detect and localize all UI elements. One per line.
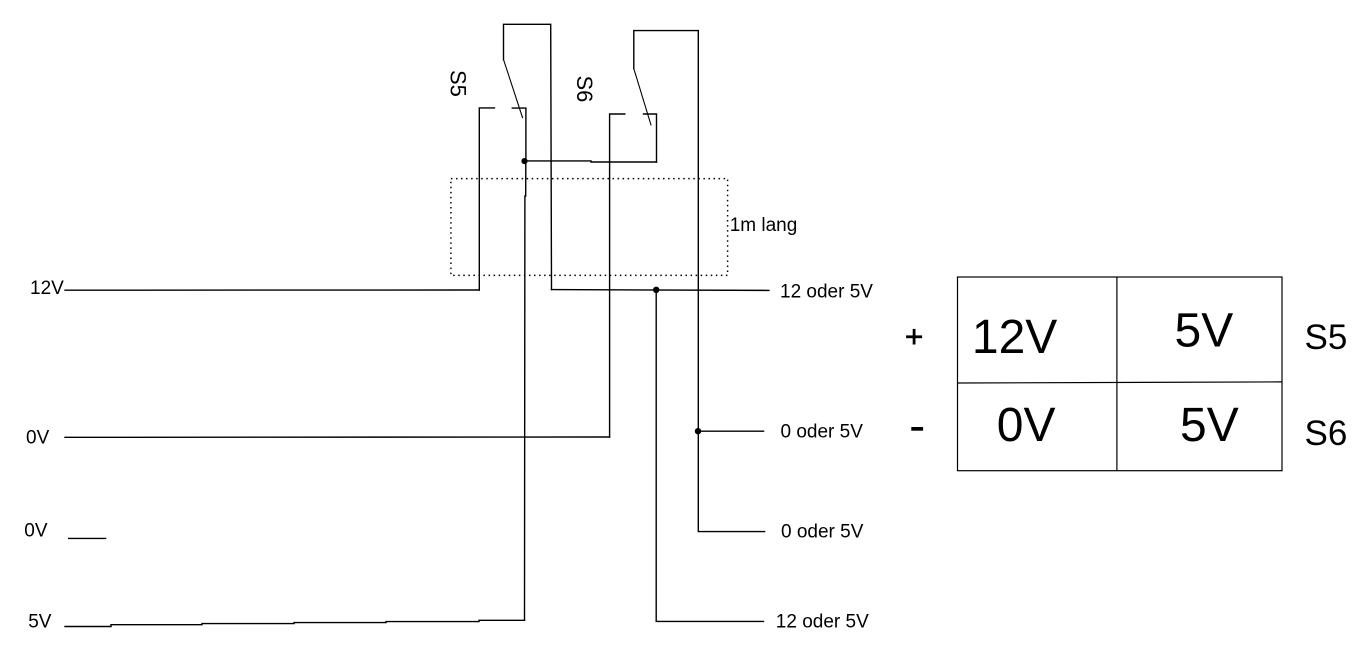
svg-text:S5: S5 (1305, 318, 1348, 357)
switch S5 left throw contact (479, 108, 494, 290)
cable 1m lang dotted outline (451, 179, 728, 276)
svg-text:S5: S5 (446, 70, 471, 97)
wire junction A horizontal (525, 161, 657, 162)
svg-text:S6: S6 (572, 76, 597, 103)
svg-text:5V: 5V (28, 611, 52, 632)
svg-text:5V: 5V (1180, 399, 1239, 452)
switch S5 arm (504, 60, 523, 118)
svg-text:1m lang: 1m lang (730, 215, 798, 236)
switch S6 pole fork (634, 31, 765, 532)
svg-text:12 oder 5V: 12 oder 5V (776, 611, 869, 632)
svg-text:0V: 0V (997, 399, 1056, 452)
svg-text:0V: 0V (26, 427, 50, 448)
wire 0 oder 5V tap (698, 430, 764, 432)
node C junction dot (695, 428, 701, 434)
svg-text:12 oder 5V: 12 oder 5V (780, 282, 873, 303)
minus sign row S6 (911, 427, 923, 431)
truth table frame (958, 277, 1283, 471)
wire 0V stub (69, 537, 106, 539)
plus sign row S5 (906, 329, 922, 345)
wire riser node A to 5V (525, 161, 526, 620)
switch S6 right throw contact (644, 114, 657, 162)
wire 12 oder 5V top (552, 289, 770, 292)
wire 12V rail (65, 289, 479, 291)
wire 0V rail (65, 436, 610, 438)
wire node B riser (656, 290, 763, 622)
svg-text:5V: 5V (1175, 305, 1234, 358)
node B junction dot (653, 287, 659, 293)
svg-text:S6: S6 (1305, 414, 1348, 453)
svg-text:12V: 12V (30, 278, 64, 299)
switch S5 right throw contact (512, 108, 526, 161)
svg-text:12V: 12V (972, 311, 1057, 364)
svg-text:0 oder 5V: 0 oder 5V (781, 521, 864, 542)
switch S5 pole fork (504, 24, 552, 289)
switch S6 arm (634, 69, 651, 125)
node A junction dot (521, 158, 527, 164)
svg-text:0 oder 5V: 0 oder 5V (781, 422, 864, 443)
switch S6 left throw contact (610, 114, 625, 437)
wire 5V rail (65, 620, 525, 626)
svg-text:0V: 0V (24, 521, 48, 542)
